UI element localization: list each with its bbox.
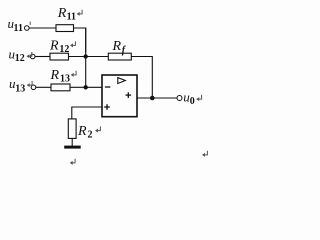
wire R2 to ground (71, 138, 73, 146)
svg-text:11: 11 (67, 12, 76, 23)
op-amp plus sign (output polarity) (126, 92, 132, 98)
op-amp U1 body (102, 75, 137, 117)
node u_o output terminal (177, 96, 182, 101)
wire Rf to output node (131, 57, 152, 99)
paragraph mark bottom right (202, 151, 207, 157)
wire u_i3 to R13 (36, 86, 51, 88)
op-amp minus sign (105, 86, 111, 88)
node u_i3 input terminal (31, 85, 36, 90)
junction dot at node/R13 (84, 85, 88, 89)
wire u_i1 to R11 (29, 27, 56, 29)
node u_i1 input terminal (25, 26, 30, 31)
svg-text:R: R (77, 124, 87, 139)
svg-text:2: 2 (88, 129, 93, 140)
node u_i2 input terminal (30, 54, 35, 59)
resistor Rf (108, 53, 131, 60)
paragraph mark after R12 (70, 41, 75, 47)
wire node to Rf (86, 56, 109, 58)
svg-text:13: 13 (60, 74, 70, 85)
resistor R12 (50, 53, 69, 60)
resistor R2 (vertical) (68, 119, 76, 138)
svg-text:R: R (57, 6, 67, 21)
paragraph mark after u_i2 (26, 52, 31, 58)
svg-text:12: 12 (59, 44, 69, 55)
svg-text:R: R (50, 68, 60, 83)
wire R13 to node column (70, 86, 86, 88)
paragraph mark after R11 (77, 10, 82, 16)
junction dot at node/R12 (84, 54, 88, 58)
op-amp triangle symbol (118, 78, 126, 84)
resistor R11 (56, 25, 74, 32)
svg-text:R: R (49, 38, 59, 53)
paragraph mark after R13 (71, 71, 76, 77)
junction dot output/feedback (150, 96, 155, 101)
svg-text:R: R (112, 39, 122, 54)
paragraph mark below ground (70, 159, 75, 165)
ground (64, 146, 81, 149)
svg-text:12: 12 (15, 53, 25, 64)
paragraph mark after u_o (196, 95, 201, 101)
wire R11 to node column (74, 28, 86, 52)
svg-text:0: 0 (190, 96, 195, 107)
wire op-amp non-inverting input to R2 (72, 107, 102, 119)
svg-text:13: 13 (15, 83, 25, 94)
wire u_i2 to R12 (35, 56, 50, 58)
op-amp plus sign (non-inverting) (104, 104, 110, 110)
paragraph mark after R2 (95, 126, 100, 132)
paragraph mark after u_i3 (27, 81, 32, 87)
paragraph mark after u_i1 (mostly hidden behind terminal) (29, 22, 31, 26)
node column wire (summing node) (85, 28, 87, 88)
wire R12 to node column (69, 56, 86, 58)
wire op-amp output (137, 97, 177, 99)
wire node to op-amp inverting input (86, 86, 102, 88)
svg-text:11: 11 (14, 23, 23, 34)
resistor R13 (51, 84, 70, 91)
